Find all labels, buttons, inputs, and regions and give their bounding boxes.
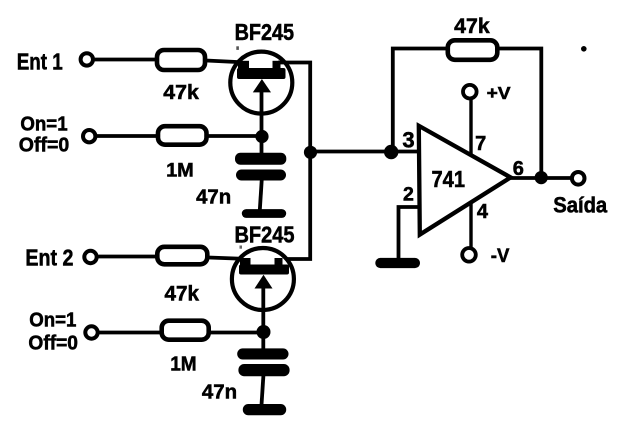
resistor R3 47k <box>157 247 207 264</box>
svg-text:Off=0: Off=0 <box>28 333 78 355</box>
svg-text:741: 741 <box>432 166 466 192</box>
svg-text:47n: 47n <box>196 186 231 209</box>
artifact dot above Q1 <box>236 46 239 50</box>
svg-text:47k: 47k <box>165 283 200 306</box>
svg-text:3: 3 <box>402 127 414 152</box>
wire R1 to Q1 gate tab <box>206 61 247 63</box>
svg-text:2: 2 <box>403 183 414 205</box>
terminal Ent 2 <box>84 251 96 263</box>
ground (pin 2) <box>375 258 420 268</box>
terminal Ent 1 <box>81 53 93 65</box>
terminal +V <box>463 85 477 99</box>
transistor Q1 BF245 body <box>230 52 292 114</box>
wire feedback left: up from pin3 node and over to R5 <box>393 49 447 152</box>
svg-text:Off=0: Off=0 <box>19 134 69 156</box>
wire Ent1 to R1 <box>95 58 157 62</box>
resistor R2 1M <box>158 126 207 145</box>
node A junction dot <box>255 130 268 143</box>
transistor Q2 gate arrow <box>255 275 273 289</box>
transistor Q1 gate arrow <box>253 79 271 92</box>
resistor R1 47k <box>157 50 205 70</box>
wire terminal to R4 <box>100 331 163 335</box>
capacitor C2 plate 2 <box>238 364 289 376</box>
wire pin2 to ground <box>399 207 420 258</box>
transistor Q1 channel bar <box>237 68 286 79</box>
wire pin4 to -V <box>469 202 472 248</box>
terminal On/Off row2 <box>85 326 97 338</box>
wire R4 to node B <box>210 331 264 335</box>
wire C2 to ground <box>262 374 264 405</box>
wire Ent2 to R3 <box>99 255 159 259</box>
svg-text:Saída: Saída <box>553 193 607 218</box>
svg-text:4: 4 <box>477 201 489 223</box>
wire Q1 drain to bus and bus down to Q2 <box>278 63 310 260</box>
wire Q2 arrow shaft down to node <box>261 286 265 349</box>
op-amp U1 741 triangle <box>419 126 511 235</box>
capacitor C1 plate 1 <box>235 153 286 165</box>
svg-text:47n: 47n <box>202 381 237 404</box>
svg-text:On=1: On=1 <box>20 114 67 136</box>
wire output pin6 <box>509 176 571 180</box>
wire pin7 to +V <box>469 99 472 156</box>
ground (below C2) <box>243 404 286 415</box>
ground (below C1) <box>242 209 286 218</box>
wire feedback right: from R5 down to output node <box>497 49 541 178</box>
terminal On/Off row1 <box>83 130 95 142</box>
wire bus to op-amp pin 3 <box>310 150 420 154</box>
svg-text:Ent 1: Ent 1 <box>17 48 63 74</box>
artifact dot above Q2 <box>240 246 243 249</box>
wire Q1 arrow shaft down to node <box>260 90 264 154</box>
svg-text:+V: +V <box>487 83 511 103</box>
node B junction dot <box>257 325 271 339</box>
transistor Q2 BF245 body <box>232 248 294 310</box>
resistor R4 1M <box>162 321 209 340</box>
transistor Q2 right tab <box>275 258 283 266</box>
node pin3 junction dot <box>384 145 398 159</box>
transistor Q1 left tab <box>238 61 249 69</box>
node bus junction dot <box>304 146 317 159</box>
capacitor C2 plate 1 <box>237 348 288 359</box>
svg-text:BF245: BF245 <box>235 19 295 45</box>
terminal Saida output <box>572 172 585 185</box>
node output junction dot <box>535 171 548 184</box>
svg-text:7: 7 <box>475 133 486 155</box>
capacitor C1 plate 2 <box>236 170 286 181</box>
transistor Q1 right tab <box>273 61 281 69</box>
svg-text:BF245: BF245 <box>235 222 295 248</box>
transistor Q2 channel bar <box>239 265 289 275</box>
wire R3 to Q2 gate tab <box>209 258 250 260</box>
svg-text:47k: 47k <box>454 15 490 38</box>
transistor Q2 left tab <box>240 258 251 266</box>
svg-text:1M: 1M <box>166 160 194 182</box>
svg-text:Ent 2: Ent 2 <box>25 245 73 271</box>
wire R2 to node A <box>207 134 262 138</box>
artifact dot top right <box>581 46 587 52</box>
wire terminal to R2 <box>97 134 158 138</box>
svg-text:1M: 1M <box>170 353 196 376</box>
terminal -V <box>462 248 476 262</box>
resistor R5 47k feedback <box>448 40 498 60</box>
svg-text:47k: 47k <box>163 81 199 104</box>
svg-text:On=1: On=1 <box>29 309 76 331</box>
svg-text:-V: -V <box>491 246 510 267</box>
wire C1 to ground <box>260 179 262 210</box>
